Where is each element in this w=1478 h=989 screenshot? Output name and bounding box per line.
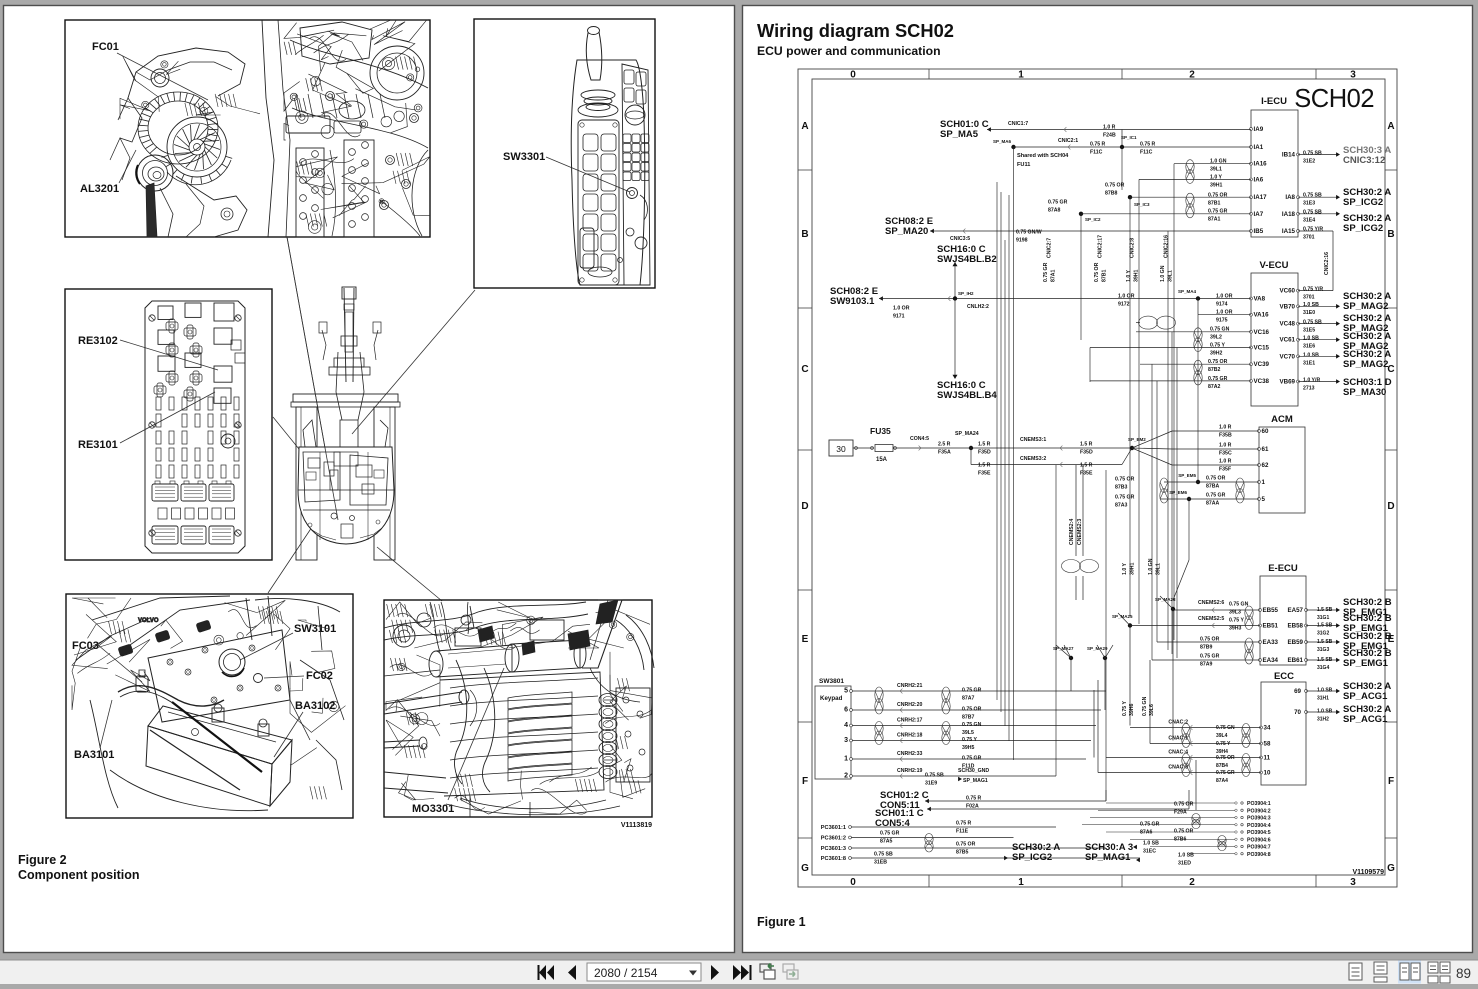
wire VC38 row: [1090, 380, 1251, 382]
wire CNEMS2 pair: [1075, 465, 1077, 556]
svg-text:SP_IH2: SP_IH2: [958, 291, 974, 296]
svg-text:69: 69: [1294, 688, 1301, 695]
svg-text:F35D: F35D: [978, 450, 991, 456]
svg-text:CNIC2:1: CNIC2:1: [1058, 138, 1078, 144]
junction SP_IH2: [953, 296, 957, 300]
figure box FC01/AL3201: [65, 20, 430, 237]
svg-text:1.0 OR: 1.0 OR: [1216, 294, 1233, 300]
svg-text:39L2: 39L2: [1210, 335, 1222, 341]
svg-text:0.75 SB: 0.75 SB: [925, 773, 944, 779]
svg-text:31H1: 31H1: [1317, 696, 1329, 702]
svg-text:CNEMS3:1: CNEMS3:1: [1020, 437, 1046, 443]
svg-text:IB5: IB5: [1254, 228, 1264, 235]
svg-text:31EB: 31EB: [874, 860, 887, 866]
svg-text:0.75 OR: 0.75 OR: [1174, 829, 1194, 835]
svg-text:1.0 SB: 1.0 SB: [1317, 709, 1333, 715]
svg-text:3: 3: [1350, 70, 1356, 81]
svg-text:2: 2: [1189, 877, 1195, 888]
svg-text:Shared with SCH04: Shared with SCH04: [1017, 153, 1069, 159]
junction SP_MA29: [1103, 656, 1107, 660]
svg-text:PO3904:3: PO3904:3: [1247, 816, 1271, 822]
svg-text:D: D: [1387, 501, 1394, 512]
svg-text:31ED: 31ED: [1178, 861, 1191, 867]
svg-text:EB59: EB59: [1288, 639, 1304, 646]
svg-text:SW9103.1: SW9103.1: [830, 296, 875, 307]
wire: [940, 447, 971, 449]
svg-text:87A8: 87A8: [1048, 208, 1061, 214]
svg-text:87B3: 87B3: [1115, 485, 1128, 491]
svg-text:CNIC3:12: CNIC3:12: [1343, 155, 1385, 166]
toolbar background: [0, 960, 1478, 984]
wire keypad row: [853, 725, 1097, 727]
svg-text:10: 10: [1264, 770, 1271, 777]
svg-text:0.75 SB: 0.75 SB: [1303, 193, 1322, 199]
svg-text:0.75 OR: 0.75 OR: [962, 707, 982, 713]
svg-text:EB61: EB61: [1288, 657, 1304, 664]
svg-text:VC70: VC70: [1280, 353, 1296, 360]
svg-text:31G1: 31G1: [1317, 615, 1329, 621]
svg-text:0.75 GN: 0.75 GN: [1210, 327, 1230, 333]
svg-text:PC3601:3: PC3601:3: [821, 846, 846, 852]
svg-text:4: 4: [844, 722, 848, 729]
svg-text:EA57: EA57: [1288, 607, 1304, 614]
svg-text:9174: 9174: [1216, 302, 1228, 308]
svg-text:B: B: [1387, 229, 1394, 240]
svg-text:Figure 1: Figure 1: [757, 915, 806, 929]
figure box SW3301: [474, 19, 655, 288]
wire VB69 out: [1298, 381, 1337, 383]
svg-text:1.5 SB: 1.5 SB: [1317, 639, 1333, 645]
svg-text:0.75 GR: 0.75 GR: [962, 756, 982, 762]
svg-text:87B1: 87B1: [1208, 201, 1221, 207]
wire: [1164, 481, 1259, 483]
svg-text:1.0 R: 1.0 R: [1103, 125, 1116, 131]
svg-text:F35A: F35A: [938, 450, 951, 456]
svg-text:1.0 GN: 1.0 GN: [1210, 159, 1227, 165]
svg-text:87A5: 87A5: [880, 839, 893, 845]
svg-text:1: 1: [1262, 479, 1266, 486]
connector ref SP_ICG2: [1004, 856, 1008, 861]
svg-text:SP_ACG1: SP_ACG1: [1343, 691, 1388, 702]
svg-text:9198: 9198: [1016, 238, 1028, 244]
svg-text:87B1: 87B1: [1102, 269, 1108, 282]
svg-text:87AA: 87AA: [1206, 501, 1220, 507]
svg-text:VC39: VC39: [1254, 361, 1270, 368]
svg-text:F11C: F11C: [1140, 150, 1153, 156]
svg-text:31G3: 31G3: [1317, 647, 1329, 653]
svg-text:0.75 R: 0.75 R: [956, 821, 972, 827]
svg-text:FU35: FU35: [870, 426, 891, 436]
svg-text:31E5: 31E5: [1303, 328, 1315, 334]
svg-text:0.75 GN: 0.75 GN: [1142, 696, 1148, 716]
svg-text:VC61: VC61: [1280, 337, 1296, 344]
svg-text:0.75 Y: 0.75 Y: [962, 737, 977, 743]
svg-text:CNIC2:7: CNIC2:7: [1047, 238, 1053, 258]
wire: [1160, 498, 1259, 500]
svg-text:0.75 Y: 0.75 Y: [1229, 618, 1244, 624]
crossover: [1062, 560, 1081, 573]
svg-text:PC3601:8: PC3601:8: [821, 856, 846, 862]
wire VC39 row: [1140, 363, 1251, 365]
snapshot tool icon: [760, 964, 771, 972]
wire IA8 out: [1298, 196, 1337, 198]
svg-text:VC48: VC48: [1280, 321, 1296, 328]
svg-text:39H6: 39H6: [1129, 703, 1135, 716]
svg-text:62: 62: [1262, 462, 1269, 469]
svg-text:C: C: [801, 364, 808, 375]
svg-text:0.75 Y/R: 0.75 Y/R: [1303, 287, 1323, 293]
svg-text:CNRH2:18: CNRH2:18: [897, 733, 922, 739]
svg-text:1.0 GN: 1.0 GN: [1148, 558, 1154, 575]
svg-text:VA8: VA8: [1254, 296, 1266, 303]
svg-text:87B4: 87B4: [1216, 763, 1228, 769]
svg-text:39L1: 39L1: [1156, 563, 1162, 575]
wire: [1195, 760, 1197, 810]
svg-text:CNIC3:5: CNIC3:5: [950, 236, 970, 242]
svg-text:39L5: 39L5: [962, 730, 974, 736]
svg-text:VC60: VC60: [1280, 288, 1296, 295]
svg-text:SP_ICG2: SP_ICG2: [1343, 223, 1383, 234]
svg-text:0: 0: [850, 877, 856, 888]
svg-text:0.75 OR: 0.75 OR: [1208, 359, 1228, 365]
svg-text:1.0 Y: 1.0 Y: [1210, 175, 1223, 181]
svg-text:0.75 GR: 0.75 GR: [880, 831, 900, 837]
svg-text:F35E: F35E: [978, 471, 991, 477]
wire ECC in: [1130, 727, 1261, 729]
svg-text:39L6: 39L6: [1149, 704, 1155, 716]
svg-text:RE3101: RE3101: [78, 439, 118, 451]
svg-text:IA16: IA16: [1254, 161, 1268, 168]
svg-text:1.5 R: 1.5 R: [1080, 463, 1093, 469]
svg-text:SP_MAG1: SP_MAG1: [1085, 852, 1131, 863]
svg-text:IA9: IA9: [1254, 126, 1264, 133]
svg-text:IA18: IA18: [1282, 211, 1296, 218]
svg-text:39L3: 39L3: [1229, 610, 1241, 616]
svg-text:E-ECU: E-ECU: [1268, 563, 1298, 574]
wire EB51 row: [1130, 625, 1260, 627]
svg-text:PC3601:1: PC3601:1: [821, 825, 846, 831]
svg-text:87A1: 87A1: [1208, 217, 1221, 223]
svg-text:2713: 2713: [1303, 386, 1315, 392]
wire VC61 out: [1298, 339, 1337, 341]
svg-text:87A4: 87A4: [1216, 778, 1228, 784]
svg-text:SP_MA30: SP_MA30: [1343, 387, 1386, 398]
svg-text:F35B: F35B: [1219, 433, 1232, 439]
svg-text:SP_MA27: SP_MA27: [1053, 646, 1074, 651]
junction SP_MA25: [1128, 623, 1132, 627]
junction SP_MA24: [969, 446, 973, 450]
wire VA16 row: [1197, 299, 1199, 315]
svg-text:31EC: 31EC: [1143, 849, 1156, 855]
svg-text:1.0 GN: 1.0 GN: [1160, 265, 1166, 282]
wire VB70 out: [1298, 305, 1337, 307]
wire: [1121, 130, 1123, 148]
excavator overview: [287, 237, 400, 560]
page number input: [587, 963, 701, 981]
svg-text:3: 3: [844, 737, 848, 744]
svg-text:5: 5: [844, 688, 848, 695]
svg-text:1.0 SB: 1.0 SB: [1178, 853, 1194, 859]
svg-text:39H1: 39H1: [1130, 562, 1136, 575]
svg-text:F11C: F11C: [1090, 150, 1103, 156]
svg-text:39H2: 39H2: [1210, 351, 1223, 357]
svg-text:31G4: 31G4: [1317, 665, 1329, 671]
svg-text:31E1: 31E1: [1303, 361, 1315, 367]
wire ECC out 69: [1306, 690, 1337, 692]
svg-text:IB14: IB14: [1282, 152, 1296, 159]
next page button: [711, 965, 719, 980]
svg-text:1.0 SB: 1.0 SB: [1143, 841, 1159, 847]
svg-text:34: 34: [1264, 725, 1271, 732]
svg-text:31E4: 31E4: [1303, 218, 1315, 224]
svg-text:SP_MA25: SP_MA25: [1112, 614, 1133, 619]
svg-text:CNAC:3: CNAC:3: [1168, 765, 1188, 771]
svg-text:CNRH2:33: CNRH2:33: [897, 751, 922, 757]
svg-text:V1113819: V1113819: [621, 822, 652, 829]
svg-text:SP_EM2: SP_EM2: [1128, 437, 1146, 442]
wire keypad row: [853, 758, 1087, 760]
svg-text:I-ECU: I-ECU: [1261, 96, 1287, 107]
svg-text:0.75 GN: 0.75 GN: [962, 722, 982, 728]
svg-text:31H2: 31H2: [1317, 717, 1329, 723]
svg-text:SP_MA29: SP_MA29: [1087, 646, 1108, 651]
svg-text:0.75 GR: 0.75 GR: [1043, 262, 1049, 282]
svg-text:0.75 GR: 0.75 GR: [1216, 770, 1235, 776]
svg-text:1.0 Y/R: 1.0 Y/R: [1303, 378, 1320, 384]
wire VC48 out: [1298, 323, 1337, 325]
svg-text:Keypad: Keypad: [820, 695, 843, 702]
wire IB14 out: [1298, 154, 1337, 156]
svg-text:PO3904:2: PO3904:2: [1247, 808, 1271, 814]
svg-text:39L1: 39L1: [1168, 270, 1174, 282]
svg-text:A: A: [1387, 121, 1394, 132]
svg-text:0.75 OR: 0.75 OR: [1174, 802, 1194, 808]
svg-text:2.5 R: 2.5 R: [938, 442, 951, 448]
svg-text:AL3201: AL3201: [80, 183, 119, 195]
svg-text:0.75 OR: 0.75 OR: [1206, 476, 1226, 482]
svg-text:31G2: 31G2: [1317, 631, 1329, 637]
svg-text:FU11: FU11: [1017, 162, 1030, 168]
svg-text:0.75 SB: 0.75 SB: [1303, 151, 1322, 157]
svg-text:CNEMS2:6: CNEMS2:6: [1198, 600, 1224, 606]
wire EB55 row: [1173, 609, 1260, 611]
svg-text:F35F: F35F: [1219, 467, 1231, 473]
wire ACM feeds: [1132, 431, 1172, 448]
figure box MO3301: [384, 600, 652, 817]
svg-text:87B5: 87B5: [956, 850, 969, 856]
wire IA18 out: [1298, 213, 1337, 215]
wire keypad row: [853, 690, 1107, 692]
svg-text:PO3904:8: PO3904:8: [1247, 852, 1271, 858]
svg-text:D: D: [801, 501, 808, 512]
svg-text:58: 58: [1264, 741, 1271, 748]
svg-text:0.75 OR: 0.75 OR: [1200, 637, 1220, 643]
svg-text:87B9: 87B9: [1200, 645, 1213, 651]
svg-text:VB70: VB70: [1280, 303, 1296, 310]
wire ECC in: [1106, 757, 1261, 759]
svg-text:1: 1: [1018, 877, 1024, 888]
svg-text:SP_ACG1: SP_ACG1: [1343, 714, 1388, 725]
previous page button: [568, 965, 576, 980]
svg-text:1.0 OR: 1.0 OR: [893, 306, 910, 312]
svg-text:0.75 SB: 0.75 SB: [1303, 210, 1322, 216]
wire VC15 row: [1090, 347, 1251, 349]
wire: [925, 799, 929, 804]
svg-text:3701: 3701: [1303, 295, 1315, 301]
svg-text:2: 2: [1189, 70, 1195, 81]
svg-text:IA7: IA7: [1254, 211, 1264, 218]
svg-text:F: F: [1388, 776, 1394, 787]
svg-text:E: E: [802, 634, 809, 645]
svg-text:CNEMS3:2: CNEMS3:2: [1020, 456, 1046, 462]
wire EA33 row: [1157, 641, 1260, 643]
svg-text:0.75 OR: 0.75 OR: [1216, 755, 1235, 761]
svg-text:G: G: [801, 863, 809, 874]
svg-text:G: G: [1387, 863, 1395, 874]
svg-text:EA33: EA33: [1263, 639, 1279, 646]
svg-text:1.0 Y: 1.0 Y: [1126, 269, 1132, 282]
svg-text:Figure 2: Figure 2: [18, 853, 67, 867]
junction SP_MA4: [1196, 296, 1200, 300]
svg-text:9172: 9172: [1118, 302, 1130, 308]
svg-text:C: C: [1387, 364, 1394, 375]
svg-text:EB58: EB58: [1288, 623, 1304, 630]
svg-text:SP_MA5: SP_MA5: [940, 129, 979, 140]
wire IA15 to VC60: [1298, 230, 1333, 232]
svg-text:SP_MAG1: SP_MAG1: [963, 778, 988, 784]
fuse FU35: [829, 440, 853, 456]
wire IA17 row: [1130, 196, 1251, 198]
svg-text:9171: 9171: [893, 314, 905, 320]
svg-text:3: 3: [1350, 877, 1356, 888]
connector PO3904: [1082, 801, 1271, 858]
wire IB5 row: [930, 229, 934, 234]
right page: [743, 6, 1473, 953]
svg-text:31E0: 31E0: [1303, 310, 1315, 316]
svg-text:ACM: ACM: [1271, 414, 1293, 425]
junction SP_EM5: [1196, 480, 1200, 484]
svg-text:1.0 SB: 1.0 SB: [1317, 688, 1333, 694]
svg-text:0.75 GR: 0.75 GR: [1208, 209, 1228, 215]
svg-text:0.75 OR: 0.75 OR: [1208, 193, 1228, 199]
wire: [1014, 146, 1252, 148]
callout lines: [287, 237, 338, 520]
svg-text:0.75 GN/W: 0.75 GN/W: [1016, 230, 1042, 236]
svg-text:EB51: EB51: [1263, 623, 1279, 630]
svg-text:CNIC2:8: CNIC2:8: [1130, 238, 1136, 258]
svg-text:EB55: EB55: [1263, 607, 1279, 614]
svg-text:SP_MA24: SP_MA24: [955, 431, 979, 437]
svg-text:SCH30_GND: SCH30_GND: [958, 768, 989, 774]
svg-text:SP_MAG2: SP_MAG2: [1343, 359, 1388, 370]
junction SP_EM2: [1130, 446, 1134, 450]
svg-text:0.75 GN: 0.75 GN: [1229, 602, 1249, 608]
two page continuous icon: [1428, 962, 1438, 973]
svg-text:CNEMS2:3: CNEMS2:3: [1077, 519, 1083, 545]
svg-text:SP_MA20: SP_MA20: [885, 226, 928, 237]
svg-text:1.5 SB: 1.5 SB: [1317, 623, 1333, 629]
last page button: [733, 965, 741, 980]
svg-text:SP_ICG2: SP_ICG2: [1012, 852, 1052, 863]
svg-text:70: 70: [1294, 709, 1301, 716]
svg-text:SP_IC3: SP_IC3: [1134, 202, 1150, 207]
svg-text:VB69: VB69: [1280, 379, 1296, 386]
svg-text:VA16: VA16: [1254, 312, 1270, 319]
svg-text:F35E: F35E: [1080, 471, 1093, 477]
junction SP_MA27: [1069, 656, 1073, 660]
svg-text:CNIC2:16: CNIC2:16: [1164, 235, 1170, 258]
svg-text:PO3904:6: PO3904:6: [1247, 837, 1271, 843]
svg-text:CNEMS2:5: CNEMS2:5: [1198, 616, 1224, 622]
wire keypad row: [853, 709, 1102, 711]
wire E-ECU out: [1306, 659, 1337, 661]
wire EA34 row: [1152, 659, 1260, 661]
svg-text:0.75 SB: 0.75 SB: [874, 852, 893, 858]
svg-text:1.0 OR: 1.0 OR: [1216, 310, 1233, 316]
svg-text:A: A: [801, 121, 808, 132]
svg-text:87A2: 87A2: [1208, 384, 1221, 390]
svg-text:0.75 R: 0.75 R: [1090, 142, 1106, 148]
svg-text:SWJS4BL.B4: SWJS4BL.B4: [937, 390, 997, 401]
svg-text:87B8: 87B8: [1105, 191, 1118, 197]
wire: [987, 127, 991, 132]
svg-text:87B7: 87B7: [962, 715, 975, 721]
wire keypad row: [853, 775, 1057, 777]
wire IA16 row: [1174, 163, 1251, 165]
svg-text:VC16: VC16: [1254, 329, 1270, 336]
svg-text:1.5 R: 1.5 R: [978, 442, 991, 448]
svg-text:6: 6: [844, 707, 848, 714]
svg-text:F: F: [802, 776, 808, 787]
junction SP_MA28: [1171, 607, 1175, 611]
svg-text:87A3: 87A3: [1115, 503, 1128, 509]
two page view icon (selected): [1398, 961, 1421, 984]
svg-text:31E6: 31E6: [1303, 344, 1315, 350]
svg-text:1.0 R: 1.0 R: [1219, 459, 1232, 465]
svg-text:PO3904:1: PO3904:1: [1247, 801, 1271, 807]
svg-text:5: 5: [1262, 496, 1266, 503]
wire IA7 row: [1081, 213, 1251, 215]
svg-text:87A7: 87A7: [962, 696, 975, 702]
snapshot tool icon 2 (disabled): [783, 964, 794, 972]
svg-text:60: 60: [1262, 428, 1269, 435]
svg-text:39L4: 39L4: [1216, 733, 1228, 739]
svg-text:CNRH2:21: CNRH2:21: [897, 683, 922, 689]
svg-text:0.75 GN: 0.75 GN: [1216, 725, 1235, 731]
crossover: [1139, 316, 1158, 329]
svg-text:1.5 R: 1.5 R: [1080, 442, 1093, 448]
svg-text:CNEMS2:4: CNEMS2:4: [1069, 519, 1075, 545]
svg-text:CNIC2:16: CNIC2:16: [1324, 252, 1330, 275]
svg-text:87A6: 87A6: [1140, 830, 1153, 836]
svg-text:SP_MA6: SP_MA6: [993, 139, 1012, 144]
svg-text:VC38: VC38: [1254, 378, 1270, 385]
svg-text:IA15: IA15: [1282, 228, 1296, 235]
svg-text:0.75 Y: 0.75 Y: [1122, 701, 1128, 716]
svg-text:F35D: F35D: [1080, 450, 1093, 456]
svg-text:0.75 R: 0.75 R: [1140, 142, 1156, 148]
svg-text:1.0 SB: 1.0 SB: [1303, 336, 1319, 342]
svg-text:CNAC:4: CNAC:4: [1168, 750, 1188, 756]
svg-text:89: 89: [1456, 966, 1471, 981]
svg-text:SCH02: SCH02: [1294, 85, 1374, 113]
junction SP_IC1: [1120, 145, 1124, 149]
svg-text:ECC: ECC: [1274, 671, 1294, 682]
wire bus: [997, 147, 1198, 801]
wire: [954, 299, 956, 376]
wire fan: [1056, 645, 1071, 658]
svg-text:SP_EM5: SP_EM5: [1178, 473, 1196, 478]
